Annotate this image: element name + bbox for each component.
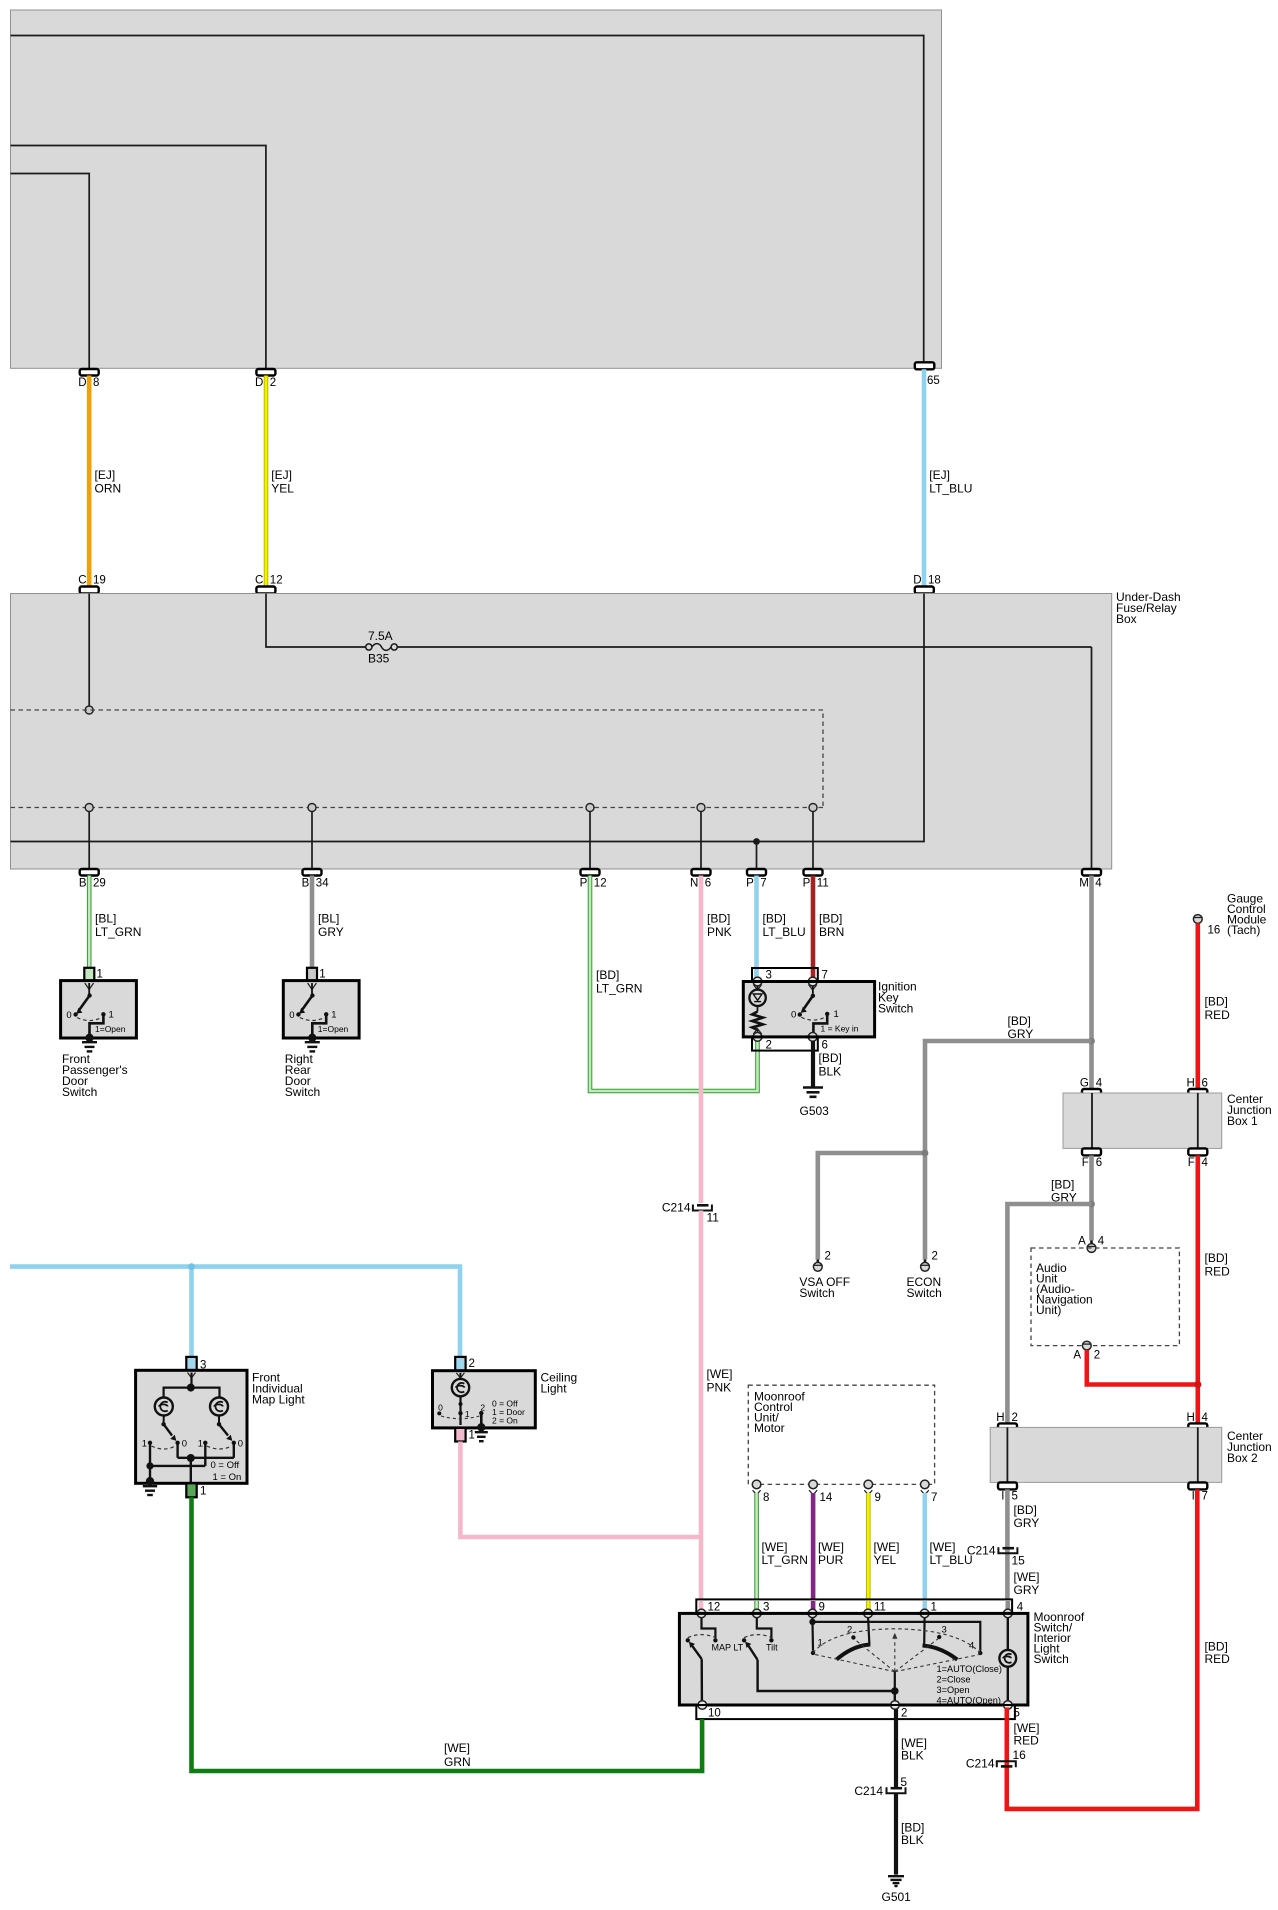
connector pin C12: [255, 575, 283, 594]
svg-text:H: H: [1186, 1412, 1194, 1424]
driver's MICU power box (top): [11, 10, 942, 368]
svg-text:12: 12: [708, 1602, 721, 1614]
ignition pin 7 circle: [808, 977, 817, 990]
svg-text:2: 2: [932, 1251, 938, 1263]
wire stub red through moonroof bottom bracket: [1004, 1708, 1009, 1720]
connector pin M4: [1079, 869, 1102, 890]
moonroof box border over pin circles: [695, 1613, 1014, 1705]
svg-text:2: 2: [901, 1708, 907, 1720]
node: bus circle B34: [308, 804, 316, 812]
svg-text:3: 3: [766, 970, 772, 982]
moonroof control unit pin 9: [864, 1480, 881, 1504]
svg-text:Switch: Switch: [878, 1002, 913, 1016]
Moonroof Switch connector bracket (top): [696, 1599, 1012, 1613]
svg-text:11: 11: [874, 1602, 886, 1614]
connector pin P11: [803, 869, 829, 890]
Ignition Key Switch connector bracket (bottom, pins 2/6): [752, 1037, 828, 1052]
connector pin B34: [302, 869, 330, 890]
svg-text:D: D: [78, 377, 86, 389]
connector pin H4: [1186, 1412, 1208, 1430]
svg-text:1: 1: [200, 1486, 206, 1498]
svg-text:BLK: BLK: [901, 1749, 924, 1763]
svg-text:BLK: BLK: [819, 1065, 842, 1079]
svg-text:34: 34: [316, 878, 329, 890]
ground G503: [800, 1088, 830, 1119]
svg-text:5: 5: [900, 1775, 907, 1789]
svg-text:P: P: [803, 878, 811, 890]
svg-text:P: P: [746, 878, 754, 890]
svg-text:7: 7: [822, 970, 828, 982]
connector pin B29: [79, 869, 106, 890]
Ceiling Light pin 2: [455, 1357, 475, 1371]
node: bus circle P11: [809, 804, 817, 812]
svg-text:3: 3: [763, 1602, 769, 1614]
node: bus circle B29: [85, 804, 93, 812]
svg-text:RED: RED: [1205, 1265, 1231, 1279]
svg-text:Switch: Switch: [62, 1085, 97, 1099]
connector pin P12: [580, 869, 607, 890]
key-in indicator lamp (diode symbol): [749, 986, 765, 1012]
svg-text:N: N: [690, 878, 698, 890]
wire: B29 internal drop: [88, 812, 90, 870]
svg-text:12: 12: [270, 575, 283, 587]
svg-text:1: 1: [142, 1438, 147, 1449]
map light bulb (right): [210, 1398, 228, 1416]
svg-text:[BD]: [BD]: [1051, 1178, 1074, 1192]
svg-text:0: 0: [438, 1402, 443, 1412]
svg-text:BLK: BLK: [901, 1833, 924, 1847]
svg-text:4: 4: [1096, 1078, 1103, 1090]
svg-text:[BD]: [BD]: [1205, 995, 1228, 1009]
wire [WE] LT_BLU pin7 to moonroof switch pin 1: [925, 1493, 973, 1599]
Front Passenger's Door Switch: [61, 968, 137, 1099]
connector pin H2: [996, 1412, 1018, 1430]
svg-text:6: 6: [1096, 1157, 1102, 1169]
svg-text:GRN: GRN: [444, 1755, 471, 1769]
map light switch left: [142, 1416, 187, 1450]
moonroof switch pin circles bottom: [698, 1701, 1012, 1710]
svg-text:8: 8: [93, 377, 99, 389]
wire [BD]/[WE] GRY from I5 to moonroof switch pin 4: [1007, 1489, 1039, 1613]
map light wiring to ground and pin 1: [146, 1443, 241, 1484]
connector pin I5: [998, 1482, 1018, 1502]
svg-text:[EJ]: [EJ]: [929, 468, 950, 482]
ceiling light switch: [437, 1396, 525, 1425]
Center Junction Box 2: [990, 1427, 1272, 1482]
ground G501: [882, 1876, 912, 1904]
connector pin C19: [78, 575, 106, 594]
svg-text:B: B: [302, 878, 310, 890]
map light ground: [143, 1477, 157, 1495]
svg-text:1: 1: [469, 1430, 475, 1442]
Under-Dash Fuse/Relay Box: [11, 590, 1181, 869]
svg-text:LT_GRN: LT_GRN: [762, 1553, 808, 1567]
svg-text:14: 14: [820, 1492, 833, 1504]
wire [WE] LT_GRN pin8 to moonroof switch pin 3: [757, 1493, 808, 1599]
node: bus circle P12: [586, 804, 594, 812]
svg-text:LT_GRN: LT_GRN: [596, 982, 642, 996]
svg-text:18: 18: [928, 575, 941, 587]
Tilt switch: [742, 1618, 895, 1691]
svg-text:4=AUTO(Open): 4=AUTO(Open): [937, 1696, 1001, 1706]
junction blue at map light branch: [188, 1263, 195, 1270]
svg-text:2: 2: [766, 1040, 772, 1052]
svg-text:YEL: YEL: [271, 482, 294, 496]
svg-text:Switch: Switch: [799, 1286, 834, 1300]
connector pin D8: [78, 369, 99, 389]
internal dashed bus (lower): [11, 807, 824, 809]
svg-text:9: 9: [819, 1602, 825, 1614]
Gauge Control Module (Tach) pin 16: [1193, 892, 1267, 938]
svg-text:ORN: ORN: [95, 482, 122, 496]
svg-text:[BD]: [BD]: [1014, 1503, 1037, 1517]
audio unit pin A4: [1078, 1236, 1105, 1253]
svg-text:GRY: GRY: [1014, 1516, 1040, 1530]
wire [WE] BLK moonroof pin 2 to C214: [896, 1709, 927, 1787]
Ceiling Light body: [433, 1371, 578, 1428]
svg-text:PNK: PNK: [707, 1381, 732, 1395]
MAP LT switch: [686, 1618, 744, 1701]
svg-text:6: 6: [705, 878, 711, 890]
node: bus circle N6: [697, 804, 705, 812]
svg-text:Light: Light: [541, 1382, 568, 1396]
svg-text:[WE]: [WE]: [707, 1367, 733, 1381]
svg-text:[EJ]: [EJ]: [95, 468, 116, 482]
wire: C19 stub to bus node: [88, 594, 90, 707]
ceiling light ground (position 2): [475, 1413, 488, 1441]
svg-text:5: 5: [1012, 1491, 1018, 1503]
connector pin P7: [746, 869, 767, 890]
svg-text:1: 1: [319, 969, 325, 981]
svg-text:I: I: [1001, 1491, 1004, 1503]
svg-text:2 = On: 2 = On: [492, 1416, 518, 1426]
svg-text:G503: G503: [800, 1104, 830, 1118]
ceiling light bulb: [452, 1373, 469, 1396]
svg-text:[WE]: [WE]: [1014, 1570, 1040, 1584]
svg-text:LT_GRN: LT_GRN: [95, 925, 141, 939]
svg-text:10: 10: [708, 1708, 721, 1720]
junction gray at ECON branch: [922, 1150, 929, 1157]
connector pin D2: [255, 369, 276, 389]
moonroof control unit pin 7: [921, 1480, 938, 1504]
svg-text:Tilt: Tilt: [766, 1643, 778, 1653]
svg-text:PNK: PNK: [707, 925, 732, 939]
wire [WE] PNK from C214 to moonroof switch pin 12: [701, 1211, 733, 1600]
svg-text:1 = On: 1 = On: [213, 1472, 242, 1483]
wire [BD] LT_GRN from P12 to ignition pin 2: [590, 876, 758, 1092]
wire [WE] RED moonroof pin 5 to I7 run: [1007, 1489, 1230, 1809]
wire stubs through top bracket: [701, 1601, 1008, 1613]
svg-text:F: F: [1082, 1157, 1089, 1169]
svg-text:Switch: Switch: [285, 1085, 320, 1099]
svg-text:C214: C214: [966, 1757, 995, 1771]
wire [BD] GRY from F6 to audio unit A4: [1051, 1155, 1092, 1240]
svg-text:[BD]: [BD]: [707, 912, 730, 926]
svg-text:I: I: [1192, 1491, 1195, 1503]
wire: internal bus to pin 65: [11, 36, 924, 363]
wire [WE] PUR pin14 to moonroof switch pin 9: [813, 1493, 844, 1599]
svg-text:4: 4: [1095, 878, 1102, 890]
svg-text:G: G: [1080, 1078, 1089, 1090]
svg-text:[WE]: [WE]: [762, 1540, 788, 1554]
ignition switch lever: [791, 986, 859, 1034]
svg-text:5: 5: [1014, 1708, 1020, 1720]
wire: internal line to pin D2: [11, 146, 266, 370]
svg-text:[BL]: [BL]: [318, 912, 339, 926]
svg-text:6: 6: [822, 1040, 828, 1052]
svg-text:YEL: YEL: [874, 1553, 897, 1567]
wire: internal line to pin D8: [11, 174, 90, 370]
svg-text:A: A: [1078, 1236, 1086, 1248]
svg-text:6: 6: [1202, 1078, 1208, 1090]
connector pin F6: [1082, 1148, 1102, 1169]
svg-text:2: 2: [270, 377, 276, 389]
wire: P7 internal drop: [756, 842, 758, 870]
svg-text:H: H: [1186, 1078, 1194, 1090]
fuse B35 7.5A circuit from C12 to M4: [266, 594, 1092, 870]
ignition pin 6 circle: [808, 1033, 817, 1042]
svg-text:15: 15: [1012, 1554, 1026, 1568]
svg-text:7: 7: [931, 1492, 937, 1504]
svg-text:[BD]: [BD]: [596, 968, 619, 982]
inline connector C214 pin 15: [967, 1544, 1025, 1568]
svg-text:2: 2: [1094, 1350, 1100, 1362]
svg-text:19: 19: [93, 575, 106, 587]
svg-text:16: 16: [1013, 1748, 1027, 1762]
junction on solid bus at P7: [753, 838, 760, 845]
svg-text:H: H: [996, 1412, 1004, 1424]
svg-text:M: M: [1079, 878, 1089, 890]
svg-text:[BD]: [BD]: [763, 912, 786, 926]
svg-text:D: D: [255, 377, 263, 389]
wire: internal solid bus from D18: [11, 594, 925, 842]
inline connector C214 pin 16: [966, 1748, 1026, 1771]
moonroof control unit pin 14: [809, 1480, 833, 1504]
svg-text:16: 16: [1208, 925, 1221, 937]
svg-text:7.5A: 7.5A: [368, 629, 393, 643]
Front Individual Map Light pin 1: [186, 1483, 206, 1497]
svg-text:1: 1: [97, 969, 103, 981]
wire: P11 internal drop: [812, 812, 814, 870]
svg-text:2: 2: [469, 1358, 475, 1370]
wire [WE] GRN map light pin 1 to moonroof pin 10: [192, 1497, 703, 1771]
VSA OFF Switch pin 2: [799, 1251, 850, 1301]
Right Rear Door Switch: [283, 968, 359, 1099]
connector pin I7: [1188, 1482, 1208, 1502]
svg-text:1=Open: 1=Open: [318, 1024, 349, 1034]
svg-text:PUR: PUR: [818, 1553, 844, 1567]
svg-text:LT_BLU: LT_BLU: [763, 925, 806, 939]
svg-text:C214: C214: [854, 1784, 883, 1798]
svg-text:4: 4: [1017, 1602, 1024, 1614]
svg-text:C214: C214: [662, 1201, 691, 1215]
node: bus circle on C19 branch: [85, 706, 93, 714]
svg-text:RED: RED: [1205, 1008, 1231, 1022]
connector pin D18: [913, 575, 941, 594]
svg-text:G501: G501: [882, 1890, 912, 1904]
svg-text:[BL]: [BL]: [95, 912, 116, 926]
svg-text:(Tach): (Tach): [1227, 923, 1260, 937]
wire [BD] LT_BLU from P7 to ignition pin 3: [757, 876, 806, 979]
svg-text:[BD]: [BD]: [1008, 1014, 1031, 1028]
wire [BL] GRY from B34: [312, 876, 344, 968]
Moonroof Control Unit / Motor dashed box: [748, 1385, 934, 1484]
svg-text:Switch: Switch: [1034, 1652, 1069, 1666]
svg-text:LT_BLU: LT_BLU: [929, 482, 972, 496]
svg-text:A: A: [1073, 1350, 1081, 1362]
svg-text:4: 4: [1202, 1412, 1209, 1424]
svg-text:RED: RED: [1205, 1652, 1231, 1666]
wire [BD] BLK from ignition pin 6: [813, 1041, 842, 1086]
connector pin F4: [1188, 1148, 1209, 1169]
wire: P12 internal drop: [589, 812, 591, 870]
svg-text:Box: Box: [1116, 612, 1137, 626]
svg-text:D: D: [913, 575, 921, 587]
ignition box border over pin circles: [751, 982, 819, 1037]
wire [BD] RED from F4 to CJB2 H4: [1198, 1155, 1230, 1423]
svg-text:7: 7: [760, 878, 766, 890]
svg-text:[WE]: [WE]: [444, 1741, 470, 1755]
wire [BD] BRN from P11 to ignition pin 7: [813, 876, 844, 979]
svg-text:LT_BLU: LT_BLU: [930, 1553, 973, 1567]
svg-text:Switch: Switch: [907, 1286, 942, 1300]
svg-text:1 = Key in: 1 = Key in: [821, 1024, 859, 1034]
svg-text:9: 9: [875, 1492, 881, 1504]
svg-text:1: 1: [331, 1010, 336, 1021]
svg-text:1: 1: [834, 1009, 839, 1020]
inline connector C214 pin 5: [854, 1775, 907, 1798]
wire GRY branch to CJB2 H2: [1007, 1204, 1091, 1423]
svg-text:11: 11: [817, 878, 829, 890]
svg-text:[BD]: [BD]: [819, 1051, 842, 1065]
svg-text:1: 1: [931, 1602, 937, 1614]
svg-text:0: 0: [791, 1010, 796, 1021]
svg-text:GRY: GRY: [318, 925, 344, 939]
wire [EJ] YEL: [266, 376, 294, 587]
connector pin 65: [915, 362, 940, 387]
svg-text:1: 1: [198, 1438, 203, 1449]
moonroof rocker switch: [809, 1618, 1002, 1706]
Ceiling Light pin 1: [455, 1428, 475, 1442]
inline connector C214 pin 11: [662, 1201, 719, 1225]
svg-text:[BD]: [BD]: [1205, 1251, 1228, 1265]
svg-text:Box 1: Box 1: [1227, 1114, 1258, 1128]
wire [BL] LT_GRN from B29: [89, 876, 141, 968]
moonroof switch pin circles top: [697, 1609, 1012, 1618]
junction gray at audio branch: [1088, 1201, 1095, 1208]
svg-text:1: 1: [109, 1010, 114, 1021]
svg-text:8: 8: [763, 1492, 769, 1504]
Moonroof Switch connector bracket (bottom): [696, 1705, 1020, 1720]
svg-text:F: F: [1188, 1157, 1195, 1169]
interior light bulb: [999, 1618, 1016, 1701]
svg-text:0: 0: [182, 1438, 187, 1449]
ignition pin 2 circle: [753, 1029, 762, 1042]
svg-text:1=AUTO(Close): 1=AUTO(Close): [937, 1664, 1002, 1674]
wire: B34 internal drop: [311, 812, 313, 870]
wire [BD] RED gauge to CJB1 H6: [1198, 923, 1230, 1089]
svg-text:MAP LT: MAP LT: [712, 1643, 744, 1653]
connector pin G4: [1080, 1078, 1103, 1097]
svg-text:11: 11: [707, 1211, 720, 1225]
svg-text:12: 12: [594, 878, 607, 890]
svg-text:2=Close: 2=Close: [937, 1675, 971, 1685]
svg-text:GRY: GRY: [1014, 1583, 1040, 1597]
svg-text:Unit): Unit): [1036, 1303, 1061, 1317]
wire: N6 internal drop: [700, 812, 702, 870]
wire GRY branch to VSA OFF / ECON: [818, 1041, 1092, 1260]
junction red at A2 branch: [1194, 1381, 1201, 1388]
svg-text:P: P: [580, 878, 588, 890]
svg-text:Map Light: Map Light: [252, 1393, 305, 1407]
map light switch right: [198, 1416, 243, 1450]
Moonroof Switch / Interior Light Switch body: [679, 1610, 1084, 1705]
wire [BD] BLK C214 to G501: [896, 1793, 924, 1874]
svg-text:29: 29: [93, 878, 106, 890]
svg-text:C: C: [255, 575, 263, 587]
svg-text:Motor: Motor: [754, 1421, 785, 1435]
Center Junction Box 1: [1063, 1092, 1272, 1148]
internal dashed bus (upper): [11, 710, 824, 808]
svg-text:[WE]: [WE]: [874, 1540, 900, 1554]
resistor (key-in lamp series): [752, 1012, 763, 1034]
svg-text:3=Open: 3=Open: [937, 1685, 970, 1695]
Ignition Key Switch connector bracket (top, pins 3/7): [752, 968, 828, 982]
svg-text:RED: RED: [1014, 1734, 1040, 1748]
svg-text:4: 4: [1098, 1236, 1105, 1248]
wire [WE] YEL pin9 to moonroof switch pin 11: [868, 1493, 899, 1599]
svg-text:C: C: [78, 575, 86, 587]
Front Individual Map Light body: [136, 1370, 306, 1483]
map light internal feed: [164, 1373, 220, 1398]
moonroof control unit pin 8: [752, 1480, 769, 1504]
audio unit pin A2: [1073, 1341, 1100, 1361]
svg-text:1: 1: [465, 1409, 470, 1419]
svg-text:[WE]: [WE]: [818, 1540, 844, 1554]
connector pin N6: [690, 869, 711, 890]
wire PNK from ceiling pin 1 to moonroof pin 12 run: [460, 1442, 701, 1538]
svg-text:0: 0: [238, 1438, 243, 1449]
svg-text:[WE]: [WE]: [930, 1540, 956, 1554]
svg-text:0 = Off: 0 = Off: [211, 1460, 240, 1471]
connector pin H6: [1186, 1078, 1207, 1097]
ECON Switch pin 2: [907, 1251, 942, 1301]
wire [EJ] LT_BLU: [924, 369, 972, 586]
wire [BD] PNK from N6: [701, 876, 732, 1204]
svg-text:7: 7: [1202, 1491, 1208, 1503]
svg-text:B: B: [79, 878, 87, 890]
Front Individual Map Light pin 3: [186, 1357, 206, 1372]
svg-text:2: 2: [480, 1402, 485, 1412]
Ignition Key Switch body: [743, 980, 916, 1037]
ignition pin 3 circle: [753, 977, 762, 990]
svg-text:BRN: BRN: [819, 925, 844, 939]
svg-text:2: 2: [1012, 1412, 1018, 1424]
svg-text:4: 4: [1202, 1157, 1209, 1169]
wire LT_BLU ceiling feed (left): [10, 1267, 460, 1357]
svg-text:0: 0: [66, 1010, 71, 1021]
svg-text:4: 4: [969, 1641, 974, 1652]
wire [BD] GRY from M4 to CJB1 G4: [1008, 876, 1092, 1090]
svg-text:Box 2: Box 2: [1227, 1451, 1258, 1465]
Audio Unit (Audio-Navigation Unit) dashed box: [1031, 1248, 1179, 1346]
svg-text:2: 2: [825, 1251, 831, 1263]
fuse B35 symbol: [366, 629, 398, 666]
svg-text:0: 0: [289, 1010, 294, 1021]
svg-text:65: 65: [927, 375, 940, 387]
svg-text:1=Open: 1=Open: [95, 1024, 126, 1034]
svg-text:B35: B35: [368, 652, 390, 666]
